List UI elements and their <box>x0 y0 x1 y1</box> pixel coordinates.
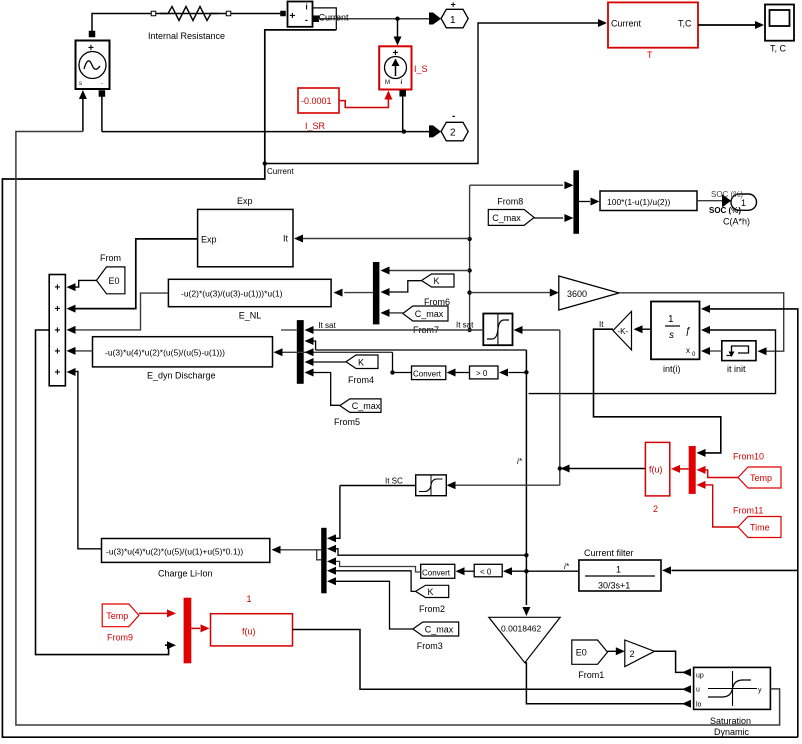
vertical i* bus x526 <box>522 350 530 616</box>
wire C_max From8 to Mux1 in2 <box>534 214 573 222</box>
svg-text:C_max: C_max <box>415 309 444 319</box>
wire triangle output to Saturation Dynamic lo <box>525 663 691 708</box>
wire K From2 to Mux3 in4 <box>327 567 416 592</box>
wire it-sat output line to Mux2 <box>305 326 484 334</box>
mux Mux1 (SOC) <box>573 170 579 234</box>
constant I_SR <box>298 88 339 131</box>
current measurement block <box>288 2 313 27</box>
svg-text:From4: From4 <box>348 375 374 385</box>
svg-text:Exp: Exp <box>237 196 253 206</box>
wire Convert output to Mux3 in3 <box>327 557 421 572</box>
fcn Charge Li-Ion <box>102 539 270 579</box>
wire I_SR to I_S <box>339 91 392 108</box>
wire port 2 line <box>102 129 429 133</box>
wire it-sat bus to 3600 <box>470 289 559 297</box>
wire E0 From1 to gain 2 <box>608 647 625 655</box>
svg-text:Current filter: Current filter <box>584 548 634 558</box>
wire it SC output down to Mux3 in1 <box>327 486 416 543</box>
wire it-sat vertical bus x469 <box>467 185 471 332</box>
output port 1 C(A*h) connector <box>722 195 731 207</box>
svg-text:K: K <box>428 587 434 597</box>
wire integrator out to -K- <box>634 325 652 333</box>
wire Charge output to sum in5 <box>67 368 102 549</box>
svg-text:M: M <box>385 80 390 86</box>
svg-text:f(u): f(u) <box>649 465 663 475</box>
svg-text:-: - <box>305 15 308 25</box>
svg-text:2: 2 <box>450 128 456 139</box>
wire Exp output to sum in2 <box>67 239 198 313</box>
wire 3600 to it init <box>619 293 784 355</box>
wire sum output (E) to red mux2 in2 <box>36 330 177 655</box>
wire it-sat bus to Mux1 in1 <box>470 181 574 189</box>
svg-text:+: + <box>55 368 61 379</box>
svg-text:Time: Time <box>750 523 770 533</box>
svg-text:From2: From2 <box>419 604 445 614</box>
svg-text:E_dyn Discharge: E_dyn Discharge <box>147 371 216 381</box>
svg-text:-K-: -K- <box>618 327 629 336</box>
goto tag C_max From3 <box>413 622 459 651</box>
sum block (Add) <box>49 275 65 386</box>
wire current into filter (from border bus) <box>662 566 798 574</box>
svg-text:C_max: C_max <box>352 401 381 411</box>
wire E0 to sum in1 <box>67 280 97 291</box>
svg-text:It sat: It sat <box>318 321 336 330</box>
gain 3600 <box>559 276 619 310</box>
svg-text:2: 2 <box>653 504 658 514</box>
svg-text:Current: Current <box>267 167 294 176</box>
wire C_max From3 to Mux3 in5 <box>327 577 413 629</box>
port 2 hexagon <box>441 111 468 141</box>
wire Mux2 output to E_dyn <box>274 348 393 356</box>
transfer fcn Current filter <box>579 548 661 591</box>
svg-text:100*(1-u(1)/u(2)): 100*(1-u(1)/u(2)) <box>607 197 670 207</box>
wire x560 vertical (f(u)2 output bus) <box>558 330 562 485</box>
svg-text:From9: From9 <box>107 633 133 643</box>
svg-text:0.0018462: 0.0018462 <box>501 624 541 634</box>
convert block (upper) <box>412 366 446 380</box>
svg-text:y: y <box>758 687 762 694</box>
wire to I_S top <box>394 19 402 46</box>
saturation it-sat block <box>483 314 512 346</box>
svg-text:Convert: Convert <box>422 569 451 578</box>
output port 1 C(A*h) <box>723 194 757 227</box>
svg-text:-: - <box>101 81 103 87</box>
svg-text:T: T <box>647 50 653 60</box>
fcn SOC 100*(1-u(1)/u(2)) <box>600 191 697 211</box>
svg-text:It sat: It sat <box>456 321 474 330</box>
wire filter output i* to <0 <box>503 567 579 575</box>
wire red mux to f(u)2 <box>671 465 689 473</box>
goto tag K From2 <box>416 585 449 614</box>
wire Temp From10 to red mux in2 <box>697 466 739 478</box>
svg-text:-0.0001: -0.0001 <box>301 96 332 106</box>
wire current to T input <box>265 19 607 164</box>
wire T to scope <box>698 21 764 29</box>
subsystem T <box>608 2 698 60</box>
svg-text:s: s <box>669 330 674 341</box>
fcn f(u) 1 (red) <box>211 594 293 646</box>
wire >0 to Convert <box>447 369 470 377</box>
svg-text:Convert: Convert <box>413 370 442 379</box>
goto tag K From4 <box>346 355 378 385</box>
wire voltage source minus terminal down to port2 line <box>99 91 105 132</box>
svg-text:I_SR: I_SR <box>305 121 326 131</box>
svg-text:It: It <box>283 234 289 244</box>
goto tag Temp From10 (red) <box>733 452 781 489</box>
integrator int(i) <box>651 302 700 375</box>
wire f(u)2 output <box>560 465 646 473</box>
svg-text:SOC (%): SOC (%) <box>711 190 743 199</box>
wire <0 to Convert <box>456 567 475 575</box>
gain 0.0018462 (down) <box>489 617 560 662</box>
svg-text:i: i <box>306 3 308 12</box>
wire convert loop top line <box>316 349 527 351</box>
wire measurement output to port 1 <box>318 17 429 21</box>
wire C_max From5 to Mux2 in5 <box>305 369 340 406</box>
wire integrator in2 from y394 line <box>529 326 776 394</box>
wire current into integrator in1 <box>701 305 798 737</box>
svg-text:E0: E0 <box>109 276 120 286</box>
svg-text:2: 2 <box>630 649 635 659</box>
gain -K- <box>599 311 632 350</box>
svg-text:Charge Li-Ion: Charge Li-Ion <box>158 569 213 579</box>
wire Saturation Dynamic output loop to voltage source <box>16 132 780 726</box>
goto tag C_max From8 <box>488 196 534 225</box>
controlled voltage source block <box>76 41 110 90</box>
fcn f(u) 2 (red) <box>645 442 669 514</box>
wire f(u)1 output to Saturation Dynamic u <box>293 630 692 694</box>
mux for E_NL inputs <box>373 262 380 324</box>
port 1 hexagon <box>441 0 468 28</box>
wire C_max From7 to E_NL mux in3 <box>381 309 403 317</box>
goto tag C_max From7 <box>403 306 448 335</box>
svg-text:K: K <box>434 276 440 286</box>
svg-text:Temp: Temp <box>106 611 128 621</box>
goto tag K From6 <box>422 274 455 307</box>
svg-text:s: s <box>79 81 82 87</box>
gain 2 <box>625 640 655 667</box>
goto tag E0 From1 <box>572 640 608 680</box>
svg-text:< 0: < 0 <box>480 568 492 577</box>
svg-text:f(u): f(u) <box>242 627 256 637</box>
wire K From4 to Mux2 in4 <box>305 358 347 366</box>
wire battery top node to resistor <box>89 11 283 37</box>
svg-text:I_S: I_S <box>414 64 428 74</box>
resistor Internal Resistance <box>148 7 285 42</box>
svg-text:int(i): int(i) <box>663 364 681 374</box>
svg-text:1: 1 <box>247 594 252 604</box>
wire Temp From9 to red mux2 <box>139 609 176 617</box>
wire SOC fcn to output port <box>697 200 722 202</box>
svg-text:From: From <box>100 253 121 263</box>
svg-text:Temp: Temp <box>750 473 772 483</box>
wire red mux2 to f(u)1 <box>191 624 209 632</box>
svg-text:From10: From10 <box>733 452 764 462</box>
wire E_NL output to sum in3 <box>67 293 169 334</box>
svg-text:lo: lo <box>696 702 702 709</box>
scope T,C <box>765 5 794 54</box>
svg-text:C(A*h): C(A*h) <box>723 217 750 227</box>
wire it-sat to E_NL mux in1 <box>381 267 470 275</box>
I_S bottom ports <box>400 91 406 132</box>
current source I_S <box>379 46 411 89</box>
svg-text:1: 1 <box>450 15 456 26</box>
wire it init to integrator x0 <box>701 347 722 355</box>
svg-text:+: + <box>55 346 61 357</box>
stray it-sat stub left of Mux2 <box>281 329 297 331</box>
svg-text:Exp: Exp <box>201 235 217 245</box>
svg-text:From3: From3 <box>417 641 443 651</box>
svg-text:> 0: > 0 <box>476 369 488 378</box>
port 2 connector <box>429 125 441 137</box>
mux red2 (f(u)1 inputs) <box>184 598 192 664</box>
goto tag Temp From9 (red) <box>102 604 139 643</box>
svg-text:K: K <box>358 357 364 367</box>
svg-text:up: up <box>696 673 704 680</box>
svg-text:+: + <box>451 0 456 10</box>
goto tag Time From11 (red) <box>733 506 781 538</box>
wire i* bus to Mux3 in2 <box>327 545 526 555</box>
svg-text:3600: 3600 <box>567 289 587 299</box>
svg-text:-u(3)*u(4)*u(2)*(u(5)/(u(1)+u(: -u(3)*u(4)*u(2)*(u(5)/(u(1)+u(5)*0.1)) <box>106 547 243 557</box>
it init block <box>722 341 756 374</box>
svg-text:C_max: C_max <box>492 213 521 223</box>
wire into it SC input <box>447 481 560 489</box>
svg-text:Internal Resistance: Internal Resistance <box>148 31 225 41</box>
compare block > 0 <box>470 366 499 379</box>
svg-text:From1: From1 <box>578 670 604 680</box>
mux red (f(u)2 inputs) <box>689 446 696 494</box>
svg-text:Dynamic: Dynamic <box>714 727 750 737</box>
wire Convert output up to Mux2 line <box>390 352 411 374</box>
svg-text:It SC: It SC <box>385 477 403 486</box>
svg-text:E0: E0 <box>576 648 587 658</box>
svg-text:From5: From5 <box>334 417 360 427</box>
port 1 connector <box>429 13 441 25</box>
fcn E_NL <box>168 279 331 320</box>
compare block < 0 <box>474 564 502 577</box>
Mux2 in3 arrow <box>305 348 314 356</box>
svg-text:-u(3)*u(4)*u(2)*(u(5)/(u(5)-u(: -u(3)*u(4)*u(2)*(u(5)/(u(5)-u(1))) <box>105 348 225 358</box>
wire gain 2 to Saturation Dynamic tp <box>655 651 692 676</box>
svg-text:1: 1 <box>668 314 674 325</box>
saturation it SC block <box>416 475 447 496</box>
svg-text:+: + <box>55 304 61 315</box>
svg-text:Current: Current <box>611 19 642 29</box>
svg-text:Current: Current <box>319 13 350 23</box>
subsystem Exp <box>198 196 293 267</box>
wire Time From11 to red mux in3 <box>697 481 739 527</box>
svg-text:u: u <box>696 687 700 694</box>
saturation dynamic block <box>694 667 771 737</box>
goto tag E0 From <box>97 253 125 294</box>
Mux3 output bracket <box>317 550 322 560</box>
svg-text:1: 1 <box>616 565 621 575</box>
svg-text:1: 1 <box>741 198 746 208</box>
fcn E_dyn Discharge <box>93 337 273 381</box>
convert block (lower) <box>421 564 455 578</box>
wire E_dyn output to sum in4 <box>67 347 93 355</box>
goto tag C_max From5 <box>334 399 381 427</box>
svg-text:x: x <box>686 346 690 355</box>
wire E_NL mux output to E_NL input <box>334 289 373 297</box>
svg-text:+: + <box>55 325 61 336</box>
wire Mux2 in2 bracket <box>305 337 316 350</box>
wire into Exp It input <box>294 235 470 243</box>
svg-text:C_max: C_max <box>425 625 454 635</box>
svg-text:+: + <box>55 283 61 294</box>
svg-text:ƒ: ƒ <box>685 326 691 337</box>
svg-text:T, C: T, C <box>770 44 787 54</box>
wire saturation input from x560 <box>514 326 560 334</box>
mux Mux3 (Charge inputs) <box>321 528 326 594</box>
wire -K- (it) to red mux <box>594 329 721 457</box>
svg-text:T,C: T,C <box>678 19 692 29</box>
svg-text:SOC (%): SOC (%) <box>709 206 741 215</box>
wire i* bus into >0 <box>499 369 526 377</box>
svg-text:-u(2)*(u(3)/(u(3)-u(1)))*u(1): -u(2)*(u(3)/(u(3)-u(1)))*u(1) <box>181 289 283 299</box>
svg-text:-: - <box>452 111 455 122</box>
svg-text:From11: From11 <box>733 506 763 516</box>
svg-text:From8: From8 <box>497 196 523 206</box>
svg-text:30/3s+1: 30/3s+1 <box>598 581 630 591</box>
current measurement output port and label frame <box>313 8 337 30</box>
mux Mux2 (E_dyn inputs) <box>297 320 304 384</box>
wire Mux1 to SOC fcn <box>579 198 600 206</box>
svg-text:+: + <box>290 11 296 22</box>
svg-text:it init: it init <box>727 364 746 374</box>
svg-text:It: It <box>599 320 604 329</box>
svg-text:E_NL: E_NL <box>239 311 262 321</box>
wire Mux3 output to Charge <box>272 546 322 554</box>
wire K From6 to E_NL mux in2 <box>381 281 422 296</box>
wire sum output into voltage source signal input <box>79 90 87 132</box>
